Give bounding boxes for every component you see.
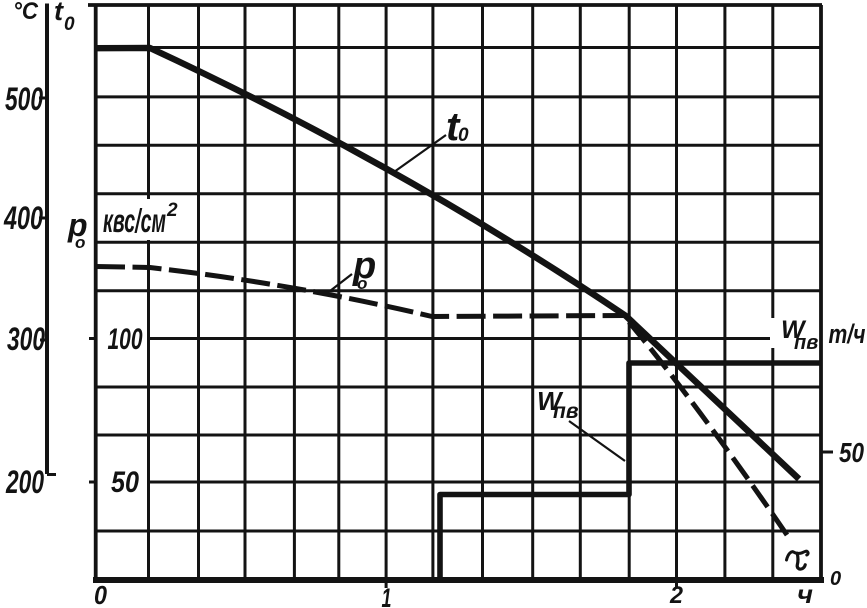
svg-text:400: 400	[3, 200, 43, 236]
svg-text:2: 2	[166, 200, 178, 221]
svg-text:o: o	[75, 233, 85, 252]
svg-text:0: 0	[94, 580, 107, 608]
svg-text:2: 2	[669, 582, 684, 608]
svg-text:т/ч: т/ч	[829, 319, 866, 349]
svg-text:0: 0	[64, 14, 75, 35]
svg-text:°C: °C	[13, 0, 39, 25]
svg-text:300: 300	[7, 321, 45, 357]
svg-text:100: 100	[108, 323, 143, 356]
svg-text:50: 50	[111, 466, 139, 499]
svg-text:200: 200	[5, 464, 44, 500]
svg-text:0: 0	[458, 125, 469, 146]
svg-text:пв: пв	[794, 332, 818, 354]
svg-text:1: 1	[382, 583, 392, 608]
svg-text:t: t	[54, 0, 64, 26]
svg-text:квс/см: квс/см	[103, 202, 166, 239]
svg-text:500: 500	[5, 81, 43, 117]
svg-text:пв: пв	[553, 400, 579, 423]
svg-text:0: 0	[830, 568, 841, 590]
svg-text:ч: ч	[797, 581, 813, 608]
svg-text:50: 50	[839, 437, 864, 468]
svg-text:o: o	[357, 274, 367, 293]
